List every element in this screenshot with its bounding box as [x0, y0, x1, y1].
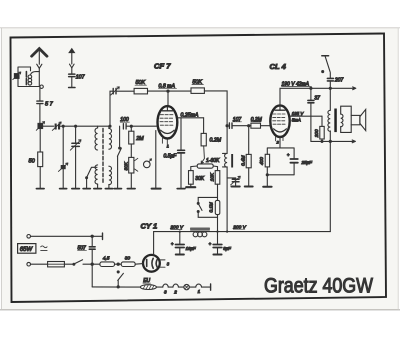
- capacitor 100: [120, 117, 129, 129]
- mains terminal (bottom): [27, 262, 31, 266]
- screen wire 195V 5mA: [290, 111, 322, 123]
- mains switch: [64, 260, 100, 266]
- oscillator coil upper right winding: [109, 126, 112, 149]
- ground (osc coil): [94, 188, 101, 190]
- wire: [232, 125, 251, 127]
- oscillator coil lower left winding: [95, 165, 98, 188]
- tube CY1 cathode riser: [153, 232, 155, 255]
- resistor 0.2M (screen dropper): [201, 118, 222, 146]
- screen wire 0.25mA: [177, 112, 203, 118]
- resistor 30K: [189, 166, 205, 187]
- trimmer capacitor (series): [43, 122, 62, 130]
- junction (tap): [115, 263, 122, 265]
- shorting switch (0.1M): [197, 197, 217, 217]
- svg-text:2M: 2M: [135, 136, 144, 142]
- capacitor 37 (on B+ rail): [308, 87, 320, 141]
- ground (0.4M): [245, 186, 253, 188]
- potentiometer 1-60K: [197, 158, 220, 168]
- ground (CF7 cathode): [152, 188, 161, 190]
- capacitor 5 7: [37, 101, 54, 107]
- svg-text:195 V: 195 V: [292, 111, 305, 116]
- output transformer secondary: [341, 114, 343, 127]
- svg-text:0.4M: 0.4M: [240, 155, 245, 166]
- ground (50): [37, 188, 45, 190]
- svg-text:3: 3: [164, 290, 167, 295]
- dial lamp: [178, 284, 189, 289]
- capacitor 16uF: [171, 232, 196, 255]
- wire antenna down: [39, 87, 41, 101]
- pot wiper arrows: [135, 158, 138, 171]
- junction (107 node): [226, 125, 228, 127]
- svg-text:10K: 10K: [210, 172, 215, 181]
- output transformer primary: [328, 88, 330, 131]
- measuring wire with arrow: [311, 140, 356, 143]
- heater winding 1: [189, 284, 201, 294]
- capacitor 507: [78, 236, 96, 287]
- ground (right winding): [105, 188, 112, 190]
- capacitor 0.5uF: [164, 118, 185, 188]
- output transformer core: [334, 109, 337, 133]
- antenna plug connector: [37, 64, 42, 86]
- heater winding 3: [156, 284, 168, 294]
- ground (cathode): [263, 175, 271, 187]
- cathode network bottom wire: [267, 174, 294, 176]
- wire main tuning bus: [60, 125, 111, 127]
- capacitor 207: [327, 78, 343, 90]
- svg-text:25μF: 25μF: [301, 160, 314, 165]
- resistor 200 (screen): [314, 116, 324, 141]
- mains terminal (top): [27, 235, 31, 239]
- label 0.8 mA: [159, 84, 177, 90]
- variable capacitor (osc): [70, 126, 81, 188]
- resistor 50K (first): [134, 80, 147, 94]
- svg-text:0.5μF: 0.5μF: [164, 154, 178, 160]
- svg-text:30K: 30K: [123, 161, 128, 170]
- tube CY1 right pins: [160, 260, 170, 267]
- svg-text:4,5: 4,5: [103, 255, 110, 261]
- oscillator coil upper left winding: [95, 126, 98, 150]
- resistor 50: [29, 129, 43, 189]
- pot switch circle: [144, 159, 152, 168]
- capacitor 107 (aux antenna): [69, 74, 86, 87]
- svg-text:1: 1: [198, 289, 201, 294]
- tube CL4 grids (dashes): [273, 114, 285, 124]
- wave switch to ground: [117, 126, 121, 188]
- resistor 50K (second): [191, 80, 204, 94]
- resistor 4,5: [100, 255, 115, 266]
- tube CL4 anode: [275, 106, 285, 110]
- wiper arrow to pot: [201, 146, 204, 163]
- voltage selector switch: [117, 271, 123, 288]
- tube CL4 envelope: [270, 105, 289, 137]
- mains wire bottom / fuse: [31, 262, 65, 267]
- svg-text:Graetz 40GW: Graetz 40GW: [264, 275, 373, 298]
- switch (mains side): [322, 56, 331, 78]
- resistor 30: [121, 255, 143, 266]
- padder capacitor to ground: [58, 126, 68, 188]
- junction 2M: [130, 125, 132, 127]
- tube CF7 cathode: [161, 130, 175, 133]
- speaker: [341, 106, 366, 132]
- svg-text:0.2M: 0.2M: [210, 138, 222, 144]
- IF transformer winding: [223, 153, 228, 167]
- svg-text:CY 1: CY 1: [141, 222, 158, 231]
- ground (wave switch): [114, 188, 121, 190]
- resistor 2M: [129, 126, 144, 144]
- heater end terminal: [202, 284, 211, 290]
- IF transformer core: [231, 154, 233, 168]
- svg-text:16μF: 16μF: [186, 246, 196, 251]
- resistor 0.2M (grid leak CL4): [251, 117, 263, 128]
- band switch on lower winding: [86, 167, 97, 188]
- heater wire: [92, 286, 140, 288]
- junction (507 node): [91, 263, 93, 265]
- svg-text:1: 1: [167, 145, 169, 149]
- grid coupling capacitor with arrow: [111, 87, 120, 95]
- wire to CL4 grid: [261, 125, 271, 127]
- svg-text:65W: 65W: [20, 247, 34, 253]
- wire anode feed to tube: [167, 91, 169, 107]
- resistor 10K: [210, 166, 220, 184]
- tuning capacitor (variable): [36, 122, 44, 131]
- coil core (dashed): [102, 129, 104, 185]
- svg-text:107: 107: [76, 75, 86, 81]
- wire IF coil down to HT rail: [226, 167, 228, 232]
- filter choke: [191, 228, 210, 237]
- capacitor 8uF: [209, 232, 231, 255]
- ground (0.5uF): [177, 188, 185, 190]
- wire to tuning cap: [39, 104, 41, 124]
- svg-text:5mA: 5mA: [292, 118, 301, 123]
- tube CY1 electrodes: [147, 258, 158, 268]
- junction dots HT rail: [179, 231, 229, 233]
- label 190V 42mA: [282, 82, 312, 88]
- svg-text:3: 3: [167, 261, 170, 266]
- svg-text:CL 4: CL 4: [270, 62, 287, 71]
- wire to dropper corner: [204, 91, 227, 126]
- potentiometer 30K (volume): [123, 144, 134, 188]
- CL4 cathode wire: [279, 137, 281, 148]
- tube CF7 grids (dashes): [160, 115, 173, 126]
- ground (IF trimmer): [231, 186, 239, 188]
- mains wire top: [31, 233, 103, 239]
- svg-text:0.25mA: 0.25mA: [181, 112, 199, 118]
- cathode ground line: [155, 131, 157, 189]
- antenna coil L1: [18, 67, 40, 87]
- label 200 V (right): [232, 224, 246, 230]
- oscillator coil lower right winding: [109, 166, 112, 188]
- ground (30K): [186, 186, 195, 188]
- label 200 V (left): [170, 225, 184, 231]
- trimmer capacitor (IF): [227, 176, 240, 186]
- svg-text:37: 37: [314, 95, 320, 101]
- junction (grid leak node): [248, 125, 250, 127]
- ballast EU: [140, 278, 156, 289]
- junction anode feed: [167, 90, 169, 92]
- anode wire to B+ rail: [280, 87, 356, 106]
- wire: [148, 90, 192, 92]
- heater winding 2: [168, 284, 178, 294]
- tube CL4 cathode: [274, 129, 287, 132]
- AC symbol: [41, 246, 47, 250]
- label 65W box: [18, 244, 36, 254]
- wire grid to tube CF7: [126, 125, 158, 127]
- border frame: [11, 34, 387, 303]
- svg-text:CF 7: CF 7: [154, 62, 171, 71]
- tube CL4 pin stubs: [276, 137, 283, 141]
- svg-text:1-60K: 1-60K: [206, 158, 220, 164]
- resistor 0.4M: [240, 126, 251, 186]
- tube CF7 pin stubs: [162, 138, 167, 144]
- cathode bias network top wire: [267, 148, 294, 159]
- svg-text:30: 30: [125, 255, 131, 261]
- svg-text:30K: 30K: [195, 176, 205, 182]
- resistor 400 (cathode): [259, 154, 270, 175]
- antenna terminal: [40, 85, 43, 88]
- svg-text:8μF: 8μF: [223, 246, 231, 251]
- ground (osc cap): [72, 188, 79, 190]
- capacitor 107 (coupling): [229, 117, 241, 128]
- feedback riser 10K to 0.1M: [217, 184, 219, 200]
- junction dots: [321, 140, 323, 142]
- capacitor 25uF (cathode bypass): [287, 153, 313, 175]
- wire riser to grid cap: [110, 91, 112, 126]
- tube CF7 envelope: [158, 106, 178, 138]
- trimmer capacitor on antenna coil: [13, 72, 21, 80]
- svg-text:200: 200: [314, 129, 319, 138]
- aux antenna 107: [69, 49, 74, 74]
- resistor 0.1M: [208, 200, 219, 231]
- svg-text:2: 2: [173, 290, 177, 295]
- tube CF7 anode: [162, 107, 173, 111]
- svg-text:0.1M: 0.1M: [208, 202, 213, 212]
- svg-text:400: 400: [259, 157, 264, 165]
- svg-text:50: 50: [29, 159, 36, 165]
- ground (band switch): [83, 188, 90, 190]
- HT rail: [154, 231, 331, 233]
- tube CY1 envelope: [143, 255, 160, 272]
- antenna: [32, 49, 47, 65]
- ground (pot): [127, 188, 135, 190]
- ground (padder): [60, 188, 67, 190]
- svg-text:207: 207: [334, 78, 344, 84]
- wire primary to HT rail: [329, 131, 331, 232]
- anode riser to IF transformer: [226, 126, 228, 154]
- wire: [116, 90, 134, 92]
- svg-text:5 7: 5 7: [45, 101, 54, 107]
